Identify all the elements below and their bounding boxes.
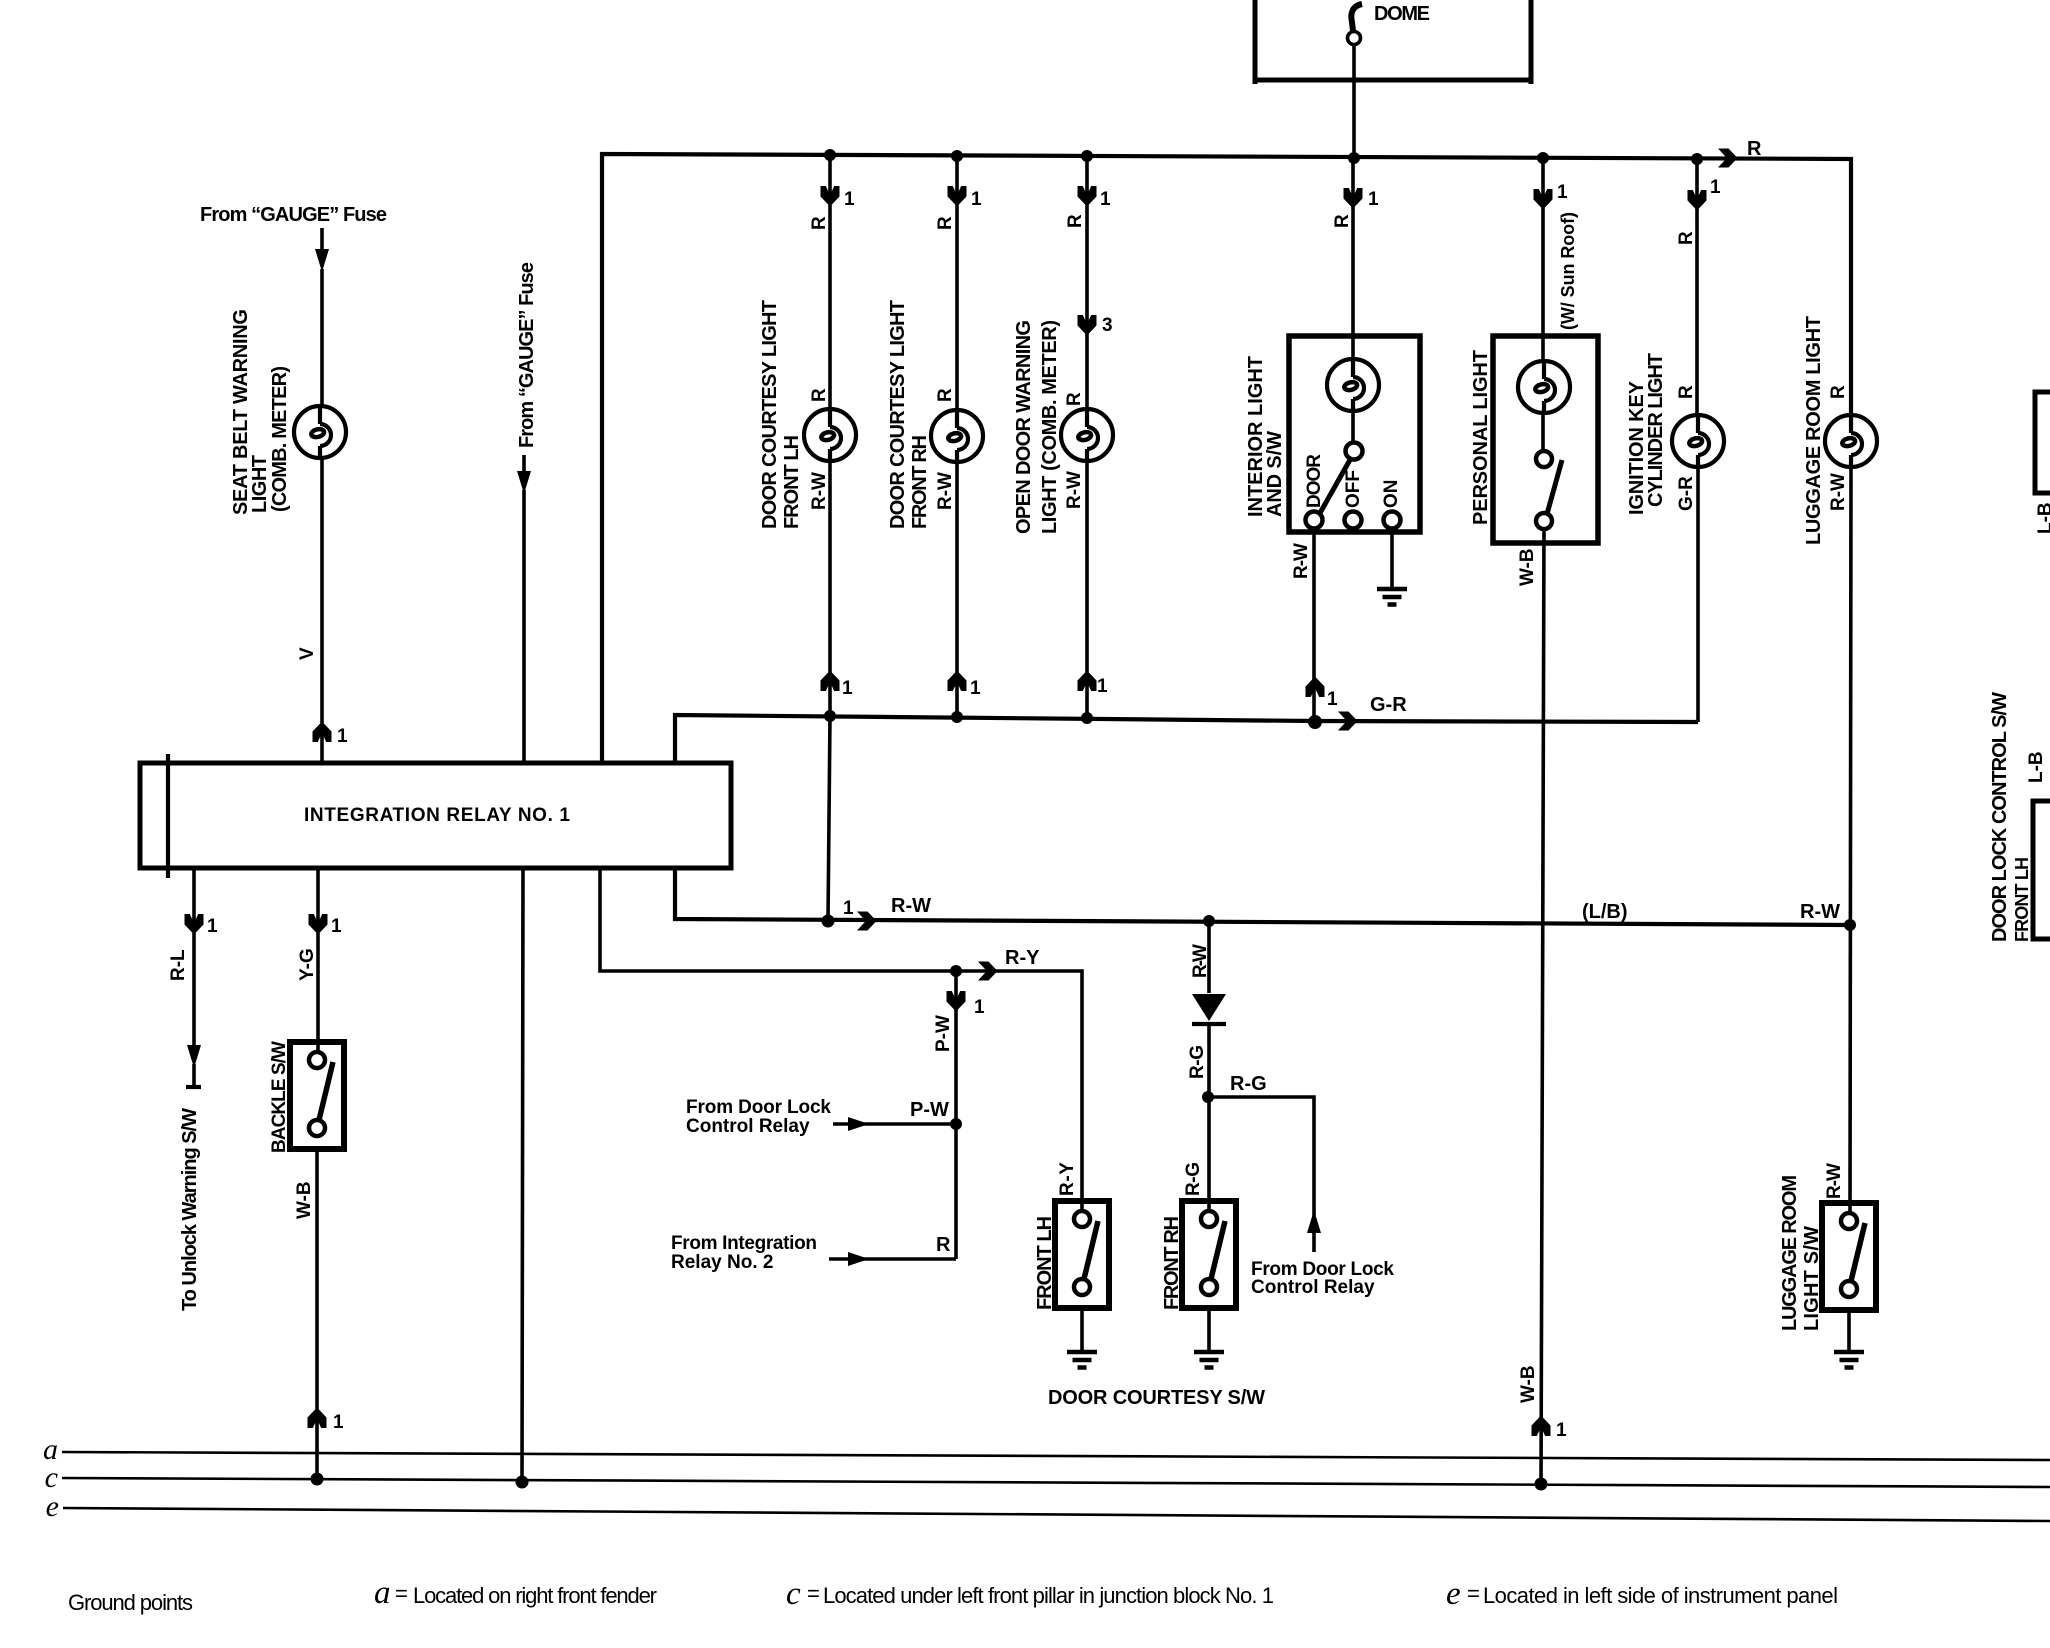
svg-text:R-G: R-G xyxy=(1183,1162,1204,1196)
svg-text:R: R xyxy=(935,388,956,402)
svg-text:(COMB. METER): (COMB. METER) xyxy=(269,366,291,512)
svg-text:R: R xyxy=(935,216,956,230)
svg-text:R: R xyxy=(1065,214,1086,228)
svg-text:INTEGRATION RELAY NO. 1: INTEGRATION RELAY NO. 1 xyxy=(304,805,570,826)
svg-text:G-R: G-R xyxy=(1676,476,1697,511)
svg-text:R-W: R-W xyxy=(1190,944,1211,978)
svg-text:1: 1 xyxy=(842,678,853,699)
svg-text:1: 1 xyxy=(1368,189,1379,210)
svg-text:CYLINDER LIGHT: CYLINDER LIGHT xyxy=(1645,353,1667,507)
svg-text:R: R xyxy=(809,216,830,230)
svg-text:1: 1 xyxy=(1097,676,1108,697)
svg-text:P-W: P-W xyxy=(933,1015,954,1052)
svg-text:BACKLE S/W: BACKLE S/W xyxy=(269,1041,290,1153)
svg-text:Located in left side of instru: Located in left side of instrument panel xyxy=(1483,1583,1838,1608)
svg-text:R-W: R-W xyxy=(809,472,830,510)
svg-text:From “GAUGE” Fuse: From “GAUGE” Fuse xyxy=(200,204,387,226)
svg-text:1: 1 xyxy=(337,726,348,747)
svg-text:R-Y: R-Y xyxy=(1005,947,1040,969)
svg-text:c: c xyxy=(786,1576,801,1612)
svg-text:Located under left front pilla: Located under left front pillar in junct… xyxy=(823,1583,1274,1608)
svg-text:e: e xyxy=(46,1490,59,1523)
svg-text:R-L: R-L xyxy=(168,949,189,981)
svg-text:R-W: R-W xyxy=(1064,471,1085,509)
svg-text:R: R xyxy=(1676,231,1697,245)
svg-text:R-G: R-G xyxy=(1230,1073,1267,1095)
svg-text:Ground points: Ground points xyxy=(68,1590,193,1615)
svg-text:DOOR COURTESY LIGHT: DOOR COURTESY LIGHT xyxy=(759,300,781,529)
svg-text:To Unlock Warning S/W: To Unlock Warning S/W xyxy=(179,1108,201,1311)
svg-text:PERSONAL LIGHT: PERSONAL LIGHT xyxy=(1470,350,1492,525)
svg-text:(W/ Sun Roof): (W/ Sun Roof) xyxy=(1558,212,1578,330)
svg-text:DOOR COURTESY S/W: DOOR COURTESY S/W xyxy=(1048,1387,1265,1409)
svg-text:1: 1 xyxy=(844,189,855,210)
svg-text:R: R xyxy=(1064,392,1085,406)
svg-text:R-W: R-W xyxy=(1800,901,1840,923)
svg-text:LUGGAGE ROOM LIGHT: LUGGAGE ROOM LIGHT xyxy=(1803,316,1825,545)
svg-text:R-Y: R-Y xyxy=(1057,1162,1078,1196)
svg-text:FRONT LH: FRONT LH xyxy=(2012,857,2032,942)
svg-text:DOOR: DOOR xyxy=(1304,454,1325,508)
svg-text:OPEN DOOR WARNING: OPEN DOOR WARNING xyxy=(1013,320,1035,534)
svg-text:1: 1 xyxy=(333,1412,344,1433)
svg-text:LIGHT S/W: LIGHT S/W xyxy=(1801,1226,1823,1331)
svg-text:LIGHT (COMB. METER): LIGHT (COMB. METER) xyxy=(1039,320,1061,534)
svg-text:R-W: R-W xyxy=(891,895,931,917)
svg-text:e: e xyxy=(1446,1576,1461,1612)
svg-text:From Door Lock: From Door Lock xyxy=(686,1097,831,1118)
svg-text:OFF: OFF xyxy=(1343,470,1364,508)
svg-text:W-B: W-B xyxy=(1517,548,1538,586)
svg-text:DOME: DOME xyxy=(1374,3,1430,25)
svg-text:1: 1 xyxy=(1710,177,1721,198)
svg-text:P-W: P-W xyxy=(910,1099,949,1121)
svg-text:W-B: W-B xyxy=(1518,1365,1539,1403)
svg-text:Located on right front fender: Located on right front fender xyxy=(413,1583,657,1608)
svg-text:AND S/W: AND S/W xyxy=(1264,431,1286,517)
svg-text:Y-G: Y-G xyxy=(297,948,318,981)
svg-text:1: 1 xyxy=(971,189,982,210)
svg-text:From Integration: From Integration xyxy=(671,1233,817,1254)
svg-text:=: = xyxy=(1467,1581,1480,1606)
svg-text:1: 1 xyxy=(1327,689,1338,710)
svg-text:Control Relay: Control Relay xyxy=(1251,1277,1375,1298)
svg-text:R: R xyxy=(809,388,830,402)
svg-text:1: 1 xyxy=(207,916,218,937)
svg-text:R: R xyxy=(936,1234,951,1256)
svg-text:FRONT LH: FRONT LH xyxy=(781,435,803,529)
svg-text:DOOR COURTESY LIGHT: DOOR COURTESY LIGHT xyxy=(887,300,909,529)
svg-text:From “GAUGE” Fuse: From “GAUGE” Fuse xyxy=(516,262,538,448)
svg-text:L-B: L-B xyxy=(2035,502,2050,534)
svg-text:R: R xyxy=(1747,138,1762,160)
svg-text:Control Relay: Control Relay xyxy=(686,1116,810,1137)
svg-text:1: 1 xyxy=(331,916,342,937)
svg-text:FRONT RH: FRONT RH xyxy=(909,435,931,529)
svg-text:LUGGAGE ROOM: LUGGAGE ROOM xyxy=(1779,1175,1801,1331)
svg-text:Relay No. 2: Relay No. 2 xyxy=(671,1252,773,1273)
svg-text:G-R: G-R xyxy=(1370,694,1407,716)
svg-text:1: 1 xyxy=(1556,1420,1567,1441)
svg-text:3: 3 xyxy=(1102,315,1113,336)
svg-text:1: 1 xyxy=(1557,182,1568,203)
svg-text:R-W: R-W xyxy=(1828,473,1849,511)
svg-text:R: R xyxy=(1828,385,1849,399)
svg-text:1: 1 xyxy=(974,997,985,1018)
svg-text:V: V xyxy=(297,647,318,660)
svg-text:DOOR LOCK CONTROL S/W: DOOR LOCK CONTROL S/W xyxy=(1989,692,2011,942)
svg-text:(L/B): (L/B) xyxy=(1582,901,1628,923)
svg-text:L-B: L-B xyxy=(2026,751,2047,783)
svg-text:1: 1 xyxy=(970,678,981,699)
svg-text:FRONT LH: FRONT LH xyxy=(1034,1216,1056,1310)
svg-text:R-W: R-W xyxy=(935,472,956,510)
svg-text:FRONT RH: FRONT RH xyxy=(1161,1216,1183,1310)
svg-text:=: = xyxy=(395,1581,408,1606)
svg-text:LIGHT: LIGHT xyxy=(249,455,271,513)
svg-text:R-G: R-G xyxy=(1187,1045,1208,1079)
svg-text:1: 1 xyxy=(1100,189,1111,210)
svg-text:1: 1 xyxy=(843,898,854,919)
svg-text:ON: ON xyxy=(1381,480,1402,509)
svg-text:R: R xyxy=(1332,214,1353,228)
svg-text:R-W: R-W xyxy=(1824,1163,1845,1199)
svg-text:W-B: W-B xyxy=(294,1181,315,1219)
svg-text:R-W: R-W xyxy=(1291,543,1312,579)
svg-text:a: a xyxy=(374,1575,391,1611)
svg-text:=: = xyxy=(807,1581,820,1606)
svg-text:R: R xyxy=(1676,385,1697,399)
